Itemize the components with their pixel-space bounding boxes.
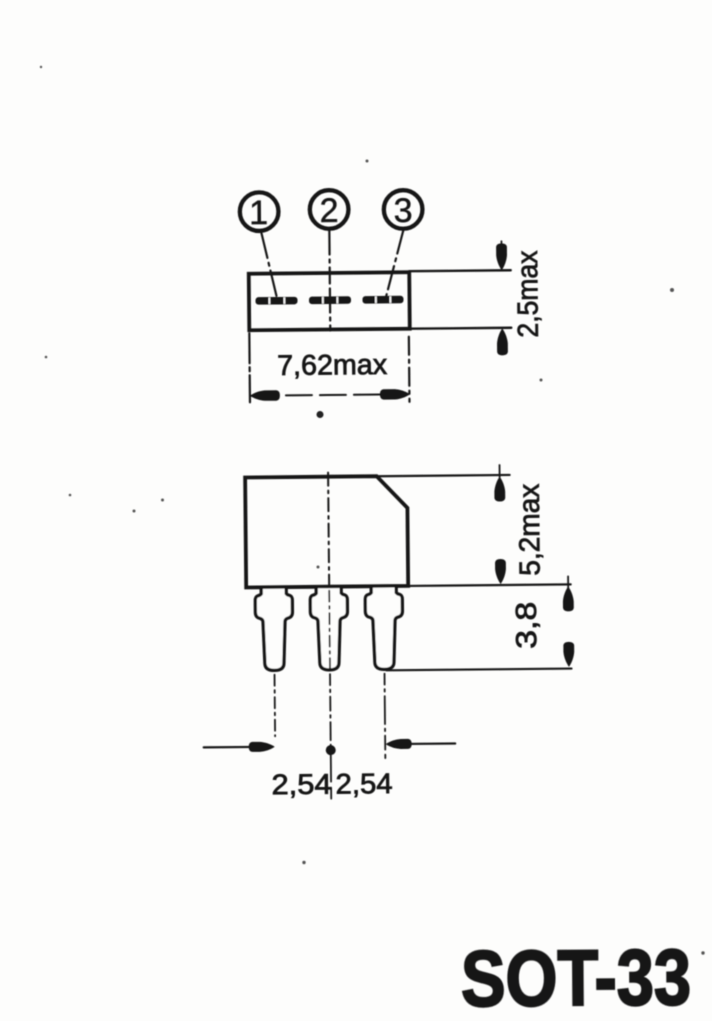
front view body outline	[245, 476, 408, 588]
dimension line 7,62 with arrows	[250, 389, 410, 401]
pin circle 2	[310, 190, 349, 230]
pin end extension line (3,8 bottom)	[386, 669, 571, 671]
pin circle 3	[384, 190, 423, 230]
leader line pin 1	[261, 232, 277, 298]
front bottom extension line (5,2 bottom / 3,8 top)	[408, 584, 570, 586]
center line through front view	[328, 473, 329, 589]
dimension 2,5max arrows	[496, 241, 508, 355]
front top extension line (5,2 top)	[377, 475, 510, 476]
top view body outline	[249, 272, 410, 330]
svg-text:2,54: 2,54	[271, 769, 331, 802]
leader line pin 2 (centerline)	[328, 230, 331, 330]
extension line right (7,62)	[408, 337, 411, 402]
svg-text:7,62max: 7,62max	[277, 349, 387, 382]
2,54 left arrow	[204, 742, 275, 753]
pin 2 centerline through pin body	[328, 591, 331, 671]
svg-text:2: 2	[319, 192, 338, 230]
svg-text:2,5max: 2,5max	[512, 250, 545, 338]
pin 3 (front)	[365, 587, 403, 669]
pin 2 (front)	[310, 588, 348, 670]
lead bar 2	[309, 296, 351, 304]
pin circle 1	[240, 192, 279, 232]
extension line left (7,62)	[248, 333, 251, 402]
lead bar 3	[362, 296, 403, 304]
svg-text:2,54: 2,54	[335, 768, 392, 801]
bottom extension line (2,5max bottom)	[410, 327, 511, 330]
leader line pin 3	[385, 230, 404, 299]
top extension line (2,5max top)	[409, 269, 510, 272]
svg-text:3: 3	[394, 192, 413, 230]
lead bar 1	[255, 297, 297, 305]
pin 1 centerline	[274, 675, 277, 736]
svg-text:3,8: 3,8	[511, 602, 543, 649]
pin 1 (front)	[255, 589, 293, 671]
svg-text:SOT-33: SOT-33	[461, 932, 692, 1021]
2,54 right arrow	[386, 738, 456, 749]
pin 2 centerline	[330, 674, 331, 800]
svg-text:5,2max: 5,2max	[514, 483, 547, 576]
dimension 3,8 arrows	[563, 576, 575, 667]
svg-text:1: 1	[249, 194, 268, 232]
pin 3 centerline	[384, 674, 387, 758]
dimension 5,2max arrows	[494, 465, 506, 584]
center dot on pin2 centerline	[326, 745, 336, 755]
